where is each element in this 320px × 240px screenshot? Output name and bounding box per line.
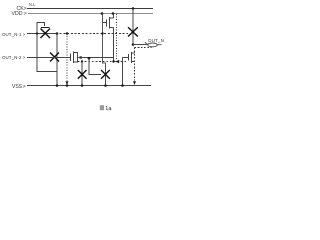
- wire VDD horizontal: [28, 13, 153, 15]
- arrow dashed branch into VSS: [133, 81, 136, 85]
- wire OUT horizontal: [133, 44, 147, 46]
- node VSS d: [104, 84, 107, 87]
- caption figure glyph: [100, 105, 104, 110]
- svg-text:>: >: [23, 32, 26, 37]
- svg-text:1a: 1a: [105, 106, 112, 112]
- svg-text:VSS: VSS: [12, 84, 23, 90]
- svg-text:OUT_N-2: OUT_N-2: [2, 55, 22, 60]
- terminal OUT_N pad: [148, 43, 162, 47]
- wire dashed OUT branch: [135, 48, 152, 81]
- transistor T2: [37, 23, 50, 39]
- wire right vertical to VSS: [122, 58, 124, 86]
- wire mid solid horizontal: [78, 57, 114, 59]
- node CK tap: [132, 7, 135, 10]
- node dashed T1 source: [112, 60, 114, 62]
- wire node N1 down: [56, 34, 58, 86]
- arrow T4 source: [78, 56, 82, 59]
- node N1 left: [56, 32, 59, 35]
- wire dotted from VDD region: [116, 14, 118, 62]
- wire T1 source down: [113, 28, 115, 62]
- wire N1 dashed horizontal: [56, 33, 128, 35]
- net label OUT_N-2: [2, 55, 26, 60]
- svg-text:OUT_N-1: OUT_N-1: [2, 32, 22, 37]
- transistor T1: [103, 14, 114, 29]
- wire gate stub T7: [123, 57, 129, 59]
- node VSS e: [121, 84, 124, 87]
- transistor T5: [78, 62, 87, 86]
- transistor T7: [129, 52, 135, 63]
- wire OUT_N-1 branch to row3: [37, 34, 57, 72]
- node N1 dotted tap: [66, 32, 69, 35]
- svg-text:N.L: N.L: [29, 2, 36, 7]
- node VSS b: [66, 84, 69, 87]
- wire dotted N1 to VSS: [66, 34, 68, 82]
- transistor T6: [101, 70, 110, 85]
- svg-text:OUT_N: OUT_N: [148, 38, 164, 43]
- node OUT_N-1 gate tap: [36, 32, 39, 35]
- wire OUT_N-1 horizontal: [27, 33, 56, 35]
- svg-text:>: >: [23, 84, 26, 90]
- node VDD tap A: [101, 12, 104, 15]
- net label VSS: [12, 84, 26, 90]
- wire gate of T6: [89, 58, 101, 75]
- wire T1 drain to VDD: [113, 14, 115, 19]
- svg-text:VDD: VDD: [12, 11, 23, 17]
- node mid: [88, 57, 91, 60]
- transistor T4: [68, 52, 78, 64]
- arrow dotted wire into VSS: [66, 81, 69, 85]
- wire VDD branch down: [103, 14, 106, 71]
- wire CK horizontal: [27, 8, 153, 10]
- wire dashed lower horizontal: [78, 61, 127, 63]
- arrow tick at OUT pad: [145, 42, 148, 44]
- net label VDD: [12, 11, 27, 17]
- wire OUT_N-2 horizontal: [27, 57, 68, 59]
- transistor T8: [128, 27, 138, 36]
- arrow on dashed wire: [115, 60, 119, 63]
- net label CK: [17, 6, 27, 12]
- wire CK branch down: [132, 9, 134, 45]
- node VSS c: [81, 84, 84, 87]
- node N1 vdd cross: [101, 32, 103, 34]
- node VSS a: [56, 84, 59, 87]
- wire VSS horizontal: [27, 85, 151, 87]
- net label OUT_N-1: [2, 32, 26, 37]
- node OUT corner: [132, 43, 135, 46]
- node dashed tap T5: [81, 60, 83, 62]
- svg-text:>: >: [24, 11, 27, 17]
- transistor T3: [50, 53, 59, 62]
- svg-text:>: >: [23, 55, 26, 60]
- node VDD tap B: [112, 12, 115, 15]
